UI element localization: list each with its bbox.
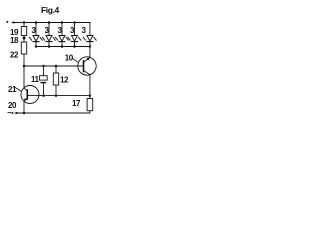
LED D2 [42,23,55,47]
wire base bus [24,65,84,67]
node bus resistor 12 bottom [55,94,58,97]
arrowhead top-left terminal [11,21,15,23]
svg-text:18: 18 [10,36,19,45]
node base bus resistor 12 [55,65,58,68]
resistor 17 [87,96,93,113]
svg-text:21: 21 [8,85,17,94]
node emitter/resistor 17 junction [89,94,92,97]
node cathode bus D3 [61,45,64,48]
node base bus capacitor 11 [42,65,45,68]
wire cathode bus [36,46,90,48]
terminal dot bottom-left [11,112,13,114]
wire top rail [14,22,90,24]
arrowhead bottom-left terminal [14,112,18,114]
capacitor C11 [39,66,47,96]
node 18/22 junction dot [23,37,26,40]
terminal dot top-left [6,21,8,23]
lead line label 21 [15,87,22,91]
lead line label 10 [72,58,78,62]
wire rail to resistor 18 [23,23,25,27]
node base bus left [23,65,26,68]
wire base bus of Q21 to resistor 17 junction [39,95,90,97]
svg-text:Fig.4: Fig.4 [41,5,60,15]
svg-text:20: 20 [8,101,17,110]
LED D5 [83,23,96,47]
LED D4 [68,23,81,47]
wire transistor 21 emitter down [23,101,25,113]
node on rail diode 1 [35,21,38,24]
node bottom rail emitter [23,112,26,115]
wire node to transistor 21 collector [23,66,25,88]
node cathode bus D4 [73,45,76,48]
svg-text:12: 12 [60,76,69,85]
node cathode bus D2 [48,45,51,48]
svg-text:17: 17 [72,99,81,108]
resistor 12 [53,66,58,96]
svg-text:22: 22 [10,51,19,60]
node cathode bus D5 [89,45,92,48]
wire dot to resistor 22 [23,36,25,43]
resistor 18 [21,27,26,36]
wire cathode bus down to transistor 10 [89,47,91,58]
node cathode bus D1 [35,45,38,48]
node on rail diode 3 [61,21,64,24]
LED D3 [55,23,68,47]
wire transistor 10 emitter down [89,75,91,96]
node bus capacitor 11 bottom [42,94,45,97]
node on rail diode 2 [48,21,51,24]
wire bottom rail [17,112,90,114]
lead dash bottom-left [8,112,11,114]
wire resistor 22 down to node [23,54,25,66]
transistor Q10 [78,57,96,75]
transistor Q21 [21,86,39,104]
node on rail diode 4 [73,21,76,24]
node on rail above resistor 18 [23,21,26,24]
svg-text:10: 10 [65,53,74,62]
LED D1 [29,23,42,47]
resistor 22 [21,42,26,54]
svg-text:11: 11 [31,75,40,84]
